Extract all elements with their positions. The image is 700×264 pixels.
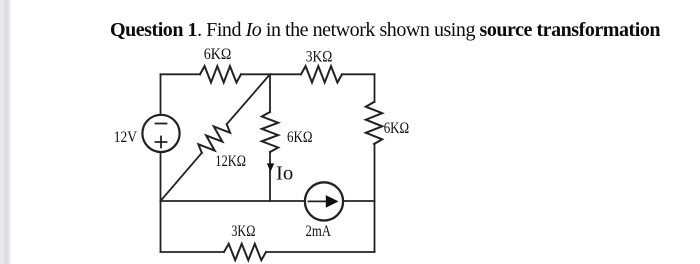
wire middle horizontal current source to F (344, 200, 375, 202)
wire right vertical lower (R to bottom-right corner H) (374, 144, 376, 252)
wire left vertical D to bottom-left corner G (160, 201, 162, 252)
svg-text:6KΩ: 6KΩ (384, 120, 410, 137)
wire left vertical lower (V1 bottom to D) (160, 153, 162, 201)
wire bottom-left G to R 3K bottom (161, 251, 225, 253)
arrow Io on middle wire (267, 163, 274, 171)
resistor 3KΩ top (301, 66, 342, 82)
svg-text:2mA: 2mA (306, 223, 332, 240)
V1 minus sign (156, 123, 167, 125)
svg-text:6KΩ: 6KΩ (204, 46, 232, 63)
resistor 6KΩ right (366, 102, 382, 144)
voltage source V1 12V (142, 115, 179, 152)
diagonal wire 12K resistor to node B (227, 74, 270, 124)
wire middle horizontal D to current source (161, 200, 305, 202)
wire top-right segment to corner C (342, 73, 375, 75)
svg-text:12V: 12V (114, 129, 138, 146)
I1 arrowhead (326, 195, 339, 208)
current source I1 2mA (305, 182, 343, 220)
wire top middle between resistors (241, 73, 301, 75)
wire middle vertical lower (R to node E) (269, 152, 271, 201)
svg-text:Io: Io (276, 163, 293, 185)
wire right vertical upper (C to R 6K right) (374, 74, 376, 102)
resistor 3KΩ bottom (224, 244, 266, 260)
svg-text:12KΩ: 12KΩ (215, 153, 246, 170)
resistor 6KΩ middle (262, 112, 278, 152)
svg-text:6KΩ: 6KΩ (287, 129, 313, 146)
resistor 12KΩ diagonal (198, 124, 230, 153)
wire top-left segment A to R 6K (161, 73, 201, 75)
wire middle vertical upper (B to R 6K mid) (269, 74, 271, 112)
resistor 6KΩ top-left (200, 66, 241, 82)
wire bottom-right R to H (266, 251, 375, 253)
I1 arrow line (309, 200, 328, 202)
svg-text:3KΩ: 3KΩ (306, 49, 333, 66)
svg-text:3KΩ: 3KΩ (231, 223, 255, 240)
diagonal wire D to 12K resistor (161, 153, 202, 201)
V1 plus sign (156, 137, 167, 148)
wire left vertical upper (A to V1 top) (160, 74, 162, 114)
